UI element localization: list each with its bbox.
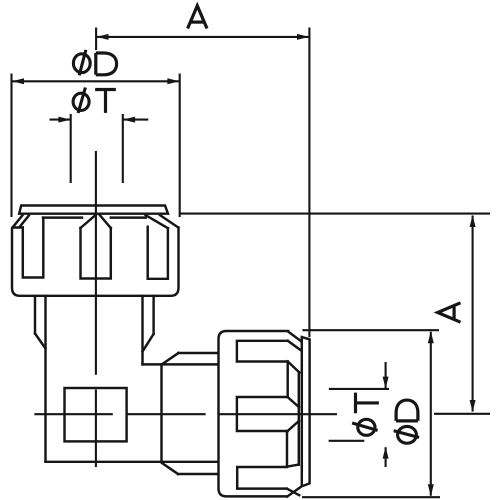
vertical centerline of top port: [95, 151, 97, 467]
arrow phiD-vert top: [428, 331, 434, 343]
castellation slot 3: [237, 465, 299, 496]
nut cap washer plate: [19, 206, 168, 214]
castellation slot 1: [237, 341, 300, 373]
arrow phiT-vert top(points down): [383, 377, 389, 389]
label A (right, rotated): [438, 303, 461, 322]
center castellation slot: [81, 228, 111, 279]
arrow phiT-vert bottom(points up): [383, 447, 389, 459]
horizontal centerline of right port: [34, 413, 337, 415]
label phiT (bottom, rotated): [352, 393, 379, 436]
arrow phiD-horiz left: [12, 78, 24, 84]
top silhouette tooth chamfer: [288, 332, 301, 341]
tooth face edge right: [111, 216, 146, 218]
arrow phiT-horiz right(points left): [123, 117, 135, 123]
castellation slot 2 (center): [237, 397, 299, 431]
boss top chamfer: [162, 353, 179, 364]
arrow phiT-horiz left(points right): [58, 117, 70, 123]
center tooth tent: [81, 215, 111, 229]
arrow phiD-horiz right: [167, 78, 179, 84]
dim phiT vertical tails: [385, 362, 387, 467]
tooth face edge left: [43, 216, 82, 218]
square boss on elbow corner: [65, 388, 127, 441]
neck outer-left wall: [34, 296, 36, 334]
boss inner top edge: [143, 363, 218, 365]
boss left end edge: [160, 364, 162, 461]
arrow A-vert bottom: [470, 400, 476, 412]
nut cap washer plate (edge-on): [302, 337, 310, 486]
left silhouette tooth chamfer: [13, 215, 29, 227]
label phiD (bottom, rotated): [394, 400, 419, 443]
right castellation slot: [148, 227, 168, 279]
neck inner-right wall: [141, 296, 143, 364]
arrow phiD-vert bottom: [428, 484, 434, 496]
neck outer-right wall: [152, 296, 154, 334]
dim A horizontal line: [97, 36, 309, 38]
bottom compression nut: [219, 331, 310, 497]
arrow A-vert top: [470, 215, 476, 227]
left castellation slot: [23, 218, 44, 278]
bottom skirt chamfer: [162, 463, 178, 474]
dim A vertical line: [472, 216, 474, 412]
label phiD (top): [73, 50, 116, 75]
dim phiT horizontal extension lines: [71, 114, 123, 183]
neck left chamfer: [35, 334, 46, 349]
neck right chamfer: [143, 334, 154, 352]
centerlines: [34, 151, 337, 467]
dim A horizontal extension lines: [95, 28, 97, 51]
dim phiD horizontal extension lines: [12, 74, 180, 218]
dim phiD horizontal line: [13, 80, 180, 82]
tooth 1 edges: [288, 362, 299, 408]
arrow A-horiz right: [297, 34, 309, 40]
label A (top): [188, 6, 207, 29]
nut body outline: [219, 331, 289, 496]
boss outer top edge: [178, 352, 217, 354]
arrow A-horiz left: [97, 34, 109, 40]
nut body outline: [12, 228, 179, 296]
right silhouette tooth chamfers: [146, 215, 179, 228]
dim phiD vertical line: [430, 332, 432, 496]
top compression nut: [12, 206, 179, 296]
neck inner-left wall: [44, 296, 46, 462]
dim phiT vertical extension lines: [329, 389, 389, 441]
label phiT (top): [73, 88, 116, 114]
dim A vertical extension lines: [180, 214, 490, 414]
tooth 2 edges: [287, 421, 299, 467]
bottom silhouette tooth chamfer: [287, 487, 300, 496]
elbow bottom edge: [46, 461, 218, 463]
dim phiT horizontal tails: [50, 119, 149, 121]
dim phiD vertical extension lines: [302, 330, 440, 497]
boss outer bottom edge: [178, 473, 217, 475]
